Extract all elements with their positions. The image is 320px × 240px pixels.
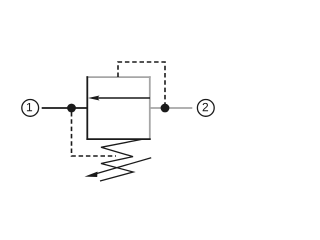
port 1 line [42, 107, 88, 109]
pilot line from port 2 to top of valve body (dashed) [118, 62, 165, 104]
port 1 label text "1" [27, 103, 32, 111]
flow path arrow line [97, 97, 150, 99]
valve body envelope bottom edge [86, 138, 150, 140]
spring adjustment arrow line [96, 158, 151, 174]
pilot line from port 1 to spring chamber (dashed) [72, 112, 117, 156]
port 2 line [150, 107, 193, 109]
port 2 label circle [197, 100, 214, 117]
junction dot node 2 [161, 104, 170, 113]
valve body envelope right edge [149, 76, 151, 140]
spring adjustment arrowhead [85, 172, 98, 177]
port 2 label text "2" [203, 103, 208, 111]
flow path arrowhead [88, 96, 100, 101]
valve body envelope left edge [86, 76, 88, 140]
spring [100, 139, 143, 181]
port 1 label circle [22, 100, 39, 117]
valve body envelope top edge [86, 76, 150, 78]
junction dot node 1 [67, 104, 76, 113]
